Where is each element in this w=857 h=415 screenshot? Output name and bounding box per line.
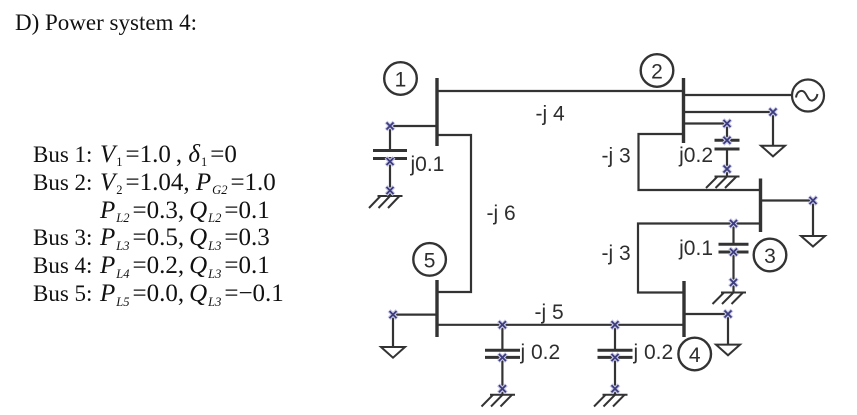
svg-text:1: 1 xyxy=(395,69,407,92)
generator G2 wire xyxy=(684,94,792,96)
label j0.2 at C5 xyxy=(633,341,674,364)
ground (arrow) at bus 3 xyxy=(801,236,825,247)
svg-text:3: 3 xyxy=(764,245,776,268)
junction x at bus3 arrow ground xyxy=(809,197,817,205)
label -j6 xyxy=(487,202,516,225)
svg-text:-j 5: -j 5 xyxy=(535,301,564,324)
node 3 label xyxy=(764,245,776,268)
label j0.1 at C1 xyxy=(410,153,445,176)
junction x at bus5 arrow ground xyxy=(389,311,397,319)
junction x at C4 ground xyxy=(498,385,506,393)
svg-text:-j 3: -j 3 xyxy=(602,242,631,265)
svg-text:5: 5 xyxy=(424,249,436,272)
label j0.2 at C2 xyxy=(678,144,713,167)
svg-text:-j 3: -j 3 xyxy=(602,144,631,167)
junction x at C5 bottom plate xyxy=(611,354,619,362)
label j0.1 at C3 xyxy=(678,237,713,260)
wire line 1-5 xyxy=(437,135,471,292)
junction x at bus2 arrow ground xyxy=(769,108,777,116)
ground (hatched) below C4 xyxy=(482,395,516,407)
node 4 circle xyxy=(678,338,711,371)
svg-text:-j 6: -j 6 xyxy=(487,202,516,225)
label -j3 line 3-4 xyxy=(602,242,631,265)
bus 3 data xyxy=(33,224,270,252)
bus 4 bar xyxy=(682,281,685,337)
ground (arrow) at bus 5 xyxy=(381,347,405,358)
bus 1 data xyxy=(33,141,237,169)
bus 2 data xyxy=(33,169,276,197)
wire bus2 to ground arrow xyxy=(684,112,774,146)
label -j3 line 2-3 xyxy=(602,144,631,167)
label j0.2 at C4 xyxy=(520,341,561,364)
junction x at C1 top xyxy=(386,122,394,130)
junction x at bus4 arrow ground xyxy=(724,310,732,318)
bus 3 bar xyxy=(759,179,762,233)
node 3 circle xyxy=(754,239,787,272)
junction x at C1 bottom plate xyxy=(386,158,394,166)
title xyxy=(15,10,197,37)
wire bus3 to ground arrow xyxy=(761,201,814,237)
bus 2 bar xyxy=(682,78,685,143)
wire bus1 to capacitor xyxy=(390,126,437,151)
wire line 2-3 xyxy=(639,134,761,190)
ground (arrow) at bus 2 xyxy=(761,146,785,157)
capacitor C4 j0.2 on line 4-5 xyxy=(485,325,520,395)
capacitor C3 j0.1 xyxy=(719,224,749,293)
wire bus5 to ground arrow xyxy=(393,315,437,347)
junction x at C4 bottom plate xyxy=(498,354,506,362)
junction x at C4 top xyxy=(498,321,506,329)
svg-text:j0.2: j0.2 xyxy=(678,144,713,167)
node 1 label xyxy=(395,69,407,92)
junction x at C3 bottom plate xyxy=(730,248,738,256)
ground (hatched) below C3 xyxy=(713,293,747,305)
junction x at C1 ground xyxy=(386,187,394,195)
node 5 label xyxy=(424,249,436,272)
svg-text:j0.1: j0.1 xyxy=(678,237,713,260)
generator G2 xyxy=(792,80,824,112)
junction x at C2 top xyxy=(723,120,731,128)
label -j4 xyxy=(536,102,565,125)
label -j5 xyxy=(535,301,564,324)
svg-text:4: 4 xyxy=(689,344,701,367)
node 1 circle xyxy=(384,62,417,95)
junction x at C2 plate xyxy=(723,136,731,144)
capacitor C2 j0.2 xyxy=(715,140,740,176)
svg-text:j0.1: j0.1 xyxy=(410,153,445,176)
node 4 label xyxy=(689,344,701,367)
node 2 label xyxy=(651,61,663,84)
node 2 circle xyxy=(641,54,674,87)
wire line 4-5 xyxy=(437,324,684,326)
bus 1 bar xyxy=(435,78,438,146)
junction x at C5 ground xyxy=(611,385,619,393)
capacitor C1 j0.1 xyxy=(373,151,407,196)
junction x at C3 ground xyxy=(730,279,738,287)
junction x at C5 top xyxy=(611,321,619,329)
junction x at C2 ground xyxy=(723,165,731,173)
junction x at C3 top xyxy=(730,220,738,228)
svg-text:2: 2 xyxy=(651,61,663,84)
node 5 circle xyxy=(413,243,446,276)
wire line 3-4 xyxy=(638,224,761,293)
svg-text:j 0.2: j 0.2 xyxy=(633,341,674,364)
ground (hatched) below C5 xyxy=(594,395,628,407)
svg-text:j 0.2: j 0.2 xyxy=(520,341,561,364)
bus 5 bar xyxy=(435,280,438,337)
wire bus4 to ground arrow xyxy=(684,314,728,345)
capacitor C5 j0.2 on line 4-5 xyxy=(598,325,633,395)
bus 2 data line 2 xyxy=(100,197,270,225)
ground (hatched) below C1 xyxy=(369,196,403,208)
svg-text:-j 4: -j 4 xyxy=(536,102,565,125)
wire bus2 to capacitor xyxy=(684,124,728,141)
wire line 1-2 xyxy=(437,90,684,92)
bus 5 data xyxy=(33,280,284,308)
bus 4 data xyxy=(33,252,270,280)
ground (hatched) below C2 xyxy=(706,177,740,189)
ground (arrow) at bus 4 xyxy=(716,345,740,356)
